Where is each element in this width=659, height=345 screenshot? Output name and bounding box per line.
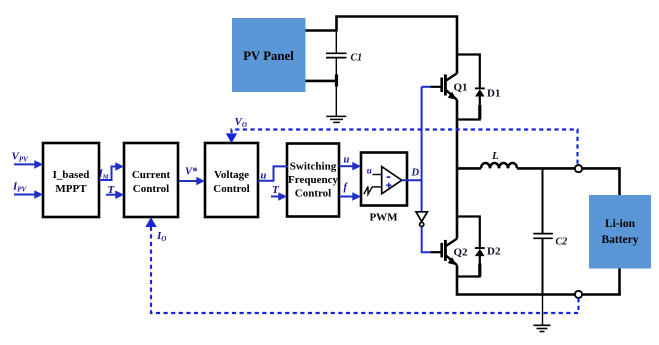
arrow u SFC to PWM [339, 162, 361, 171]
arrow I_PV input [14, 190, 43, 199]
svg-text:Switching: Switching [290, 161, 337, 173]
op-amp comparator inside PWM [382, 167, 402, 194]
svg-text:C1: C1 [351, 52, 363, 63]
wire battery bottom lead [618, 269, 621, 295]
inductor L [457, 163, 620, 195]
inverter (NOT gate to Q2 gate) [416, 212, 427, 227]
arrow f SFC to PWM [339, 192, 361, 201]
capacitor C2 [533, 168, 553, 294]
svg-text:D: D [411, 168, 420, 179]
diode D2 [475, 248, 485, 256]
svg-text:Control: Control [295, 188, 331, 200]
svg-text:PV Panel: PV Panel [243, 49, 294, 63]
block PV Panel [232, 18, 306, 92]
svg-text:Q1: Q1 [454, 82, 468, 94]
svg-text:I_based: I_based [53, 169, 90, 181]
svg-text:MPPT: MPPT [55, 183, 87, 195]
wire Q1 gate lead [422, 86, 432, 88]
arrow V_PV input [14, 160, 43, 169]
svg-text:Voltage: Voltage [214, 169, 249, 181]
diode D1 [475, 88, 485, 96]
arrow V* Current Control to Voltage Control [179, 177, 205, 186]
block Li-ion Battery [589, 195, 651, 269]
wire top rail to Q1 collector [337, 17, 458, 74]
diode D1 branch wires [457, 55, 480, 88]
block MPPT (I_based MPPT) [43, 143, 99, 217]
svg-text:L: L [491, 150, 499, 162]
node (top output node circle) [575, 165, 582, 172]
wire I_M MPPT to Current Control [99, 162, 124, 180]
wire D PWM output to gate rail [402, 179, 422, 181]
ground (bottom, under C2) [534, 325, 551, 331]
block PWM box [361, 153, 407, 224]
arrow T into SFC [271, 192, 287, 201]
wire gate rail vertical [421, 87, 423, 213]
wire u Voltage Control to SFC [258, 166, 288, 180]
sawtooth symbol [364, 186, 372, 194]
wire main rail Q1 emitter to Q2 collector [456, 100, 459, 239]
wire PV panel bottom lead [306, 80, 338, 83]
svg-text:Control: Control [133, 183, 169, 195]
comparator input lead sawtooth [372, 186, 382, 188]
svg-text:Current: Current [132, 169, 171, 181]
capacitor C1 [326, 31, 347, 117]
svg-text:D2: D2 [487, 246, 501, 258]
svg-text:Frequency: Frequency [288, 174, 338, 186]
transistor Q1 (IGBT) [442, 73, 457, 100]
svg-text:Control: Control [213, 183, 249, 195]
svg-text:Li-ion: Li-ion [605, 218, 636, 230]
wire Q2 gate lead [422, 227, 432, 253]
comparator input lead u [373, 174, 382, 176]
dashed feedback I_O from bottom node to Current Control [145, 217, 578, 313]
block Current Control [124, 143, 178, 217]
ground (under C1) [326, 116, 346, 122]
node (bottom output node circle) [575, 291, 582, 298]
dashed feedback V_O from top node to Voltage Control [226, 130, 578, 164]
diode D2 branch wires [457, 217, 480, 248]
wire C2 to ground [542, 295, 544, 326]
svg-text:PWM: PWM [369, 212, 398, 224]
svg-text:Battery: Battery [601, 234, 638, 246]
transistor Q2 (IGBT) [442, 239, 457, 266]
junction bar at C1 bottom lead [335, 75, 338, 87]
wire main rail Q2 emitter to bottom rail and bottom rail [457, 265, 621, 294]
svg-text:u: u [344, 155, 350, 166]
wire PV panel top lead [306, 29, 337, 32]
block Switching Frequency Control [287, 144, 339, 217]
svg-text:D1: D1 [487, 87, 500, 99]
svg-text:Q2: Q2 [454, 247, 469, 259]
svg-text:C2: C2 [556, 237, 568, 248]
arrow T into Current Control [106, 190, 124, 199]
svg-text:u: u [367, 165, 372, 175]
block Voltage Control [205, 143, 258, 217]
svg-text:V*: V* [185, 167, 198, 178]
